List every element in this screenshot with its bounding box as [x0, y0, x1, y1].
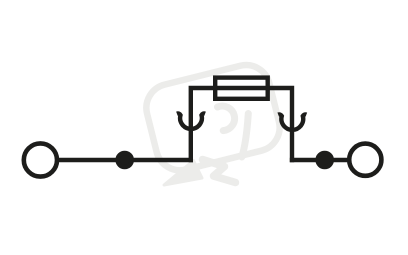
watermark diagonal — [242, 114, 249, 158]
fuse F1 — [215, 78, 268, 99]
junction dot right — [318, 153, 332, 167]
contact fork right — [278, 114, 306, 129]
contact fork left — [177, 114, 205, 129]
watermark arrowhead — [164, 161, 202, 186]
wire left vertical + top bus + right vertical — [191, 88, 292, 162]
junction dot left — [118, 153, 132, 167]
wire left horizontal — [59, 158, 193, 162]
terminal circle left — [24, 143, 57, 176]
watermark logo (Phoenix Contact), light gray — [141, 60, 284, 185]
watermark frame — [141, 60, 284, 175]
watermark zigzag — [203, 160, 236, 183]
wire right horizontal — [290, 158, 348, 162]
watermark curl — [218, 106, 235, 131]
terminal circle right — [349, 144, 381, 176]
